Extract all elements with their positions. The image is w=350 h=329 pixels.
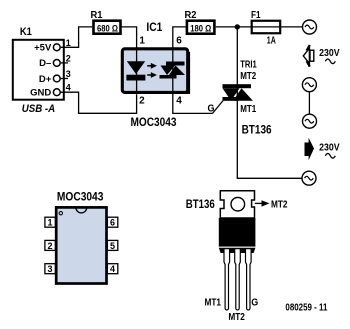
svg-text:6: 6 — [176, 36, 182, 47]
svg-text:D+: D+ — [39, 74, 52, 85]
svg-text:MT2: MT2 — [271, 199, 288, 210]
fuse F1 — [251, 10, 282, 47]
optocoupler IC1 box — [122, 20, 189, 93]
wire +5V to R1 — [61, 27, 92, 47]
svg-text:MOC3043: MOC3043 — [131, 117, 177, 129]
svg-text:F1: F1 — [251, 10, 261, 21]
TO-220 tab with notches — [220, 191, 254, 218]
svg-text:IC1: IC1 — [146, 20, 162, 34]
AC source terminal 1 — [303, 20, 317, 34]
wire D+ stub — [61, 78, 68, 80]
svg-text:GND: GND — [30, 87, 51, 98]
DIP pin 6 — [107, 217, 117, 227]
svg-text:K1: K1 — [20, 26, 32, 38]
svg-text:R2: R2 — [185, 10, 197, 21]
svg-text:080259 - 11: 080259 - 11 — [285, 301, 327, 313]
svg-text:G: G — [208, 104, 215, 115]
arrow to MT2 — [255, 199, 288, 210]
AC source terminal 4 — [302, 171, 316, 185]
sine symbol top — [325, 59, 335, 64]
svg-text:3: 3 — [66, 69, 71, 79]
svg-text:MOC3043: MOC3043 — [57, 190, 104, 204]
wire R1 to IC1 pin 1 — [121, 27, 136, 48]
triac TRI1 — [223, 84, 253, 101]
leg MT2 — [235, 249, 241, 310]
wire GND to IC1 pin 2 — [61, 92, 137, 113]
svg-text:2: 2 — [47, 241, 52, 251]
wire IC1 pin4 to gate — [173, 93, 213, 113]
svg-text:MT1: MT1 — [205, 298, 222, 309]
svg-text:5: 5 — [110, 241, 115, 251]
svg-text:230V: 230V — [319, 47, 340, 59]
AC source terminal 2 — [302, 78, 316, 92]
LED inside IC1 — [126, 61, 145, 80]
svg-text:1: 1 — [47, 218, 52, 228]
wire terminal2 to terminal3 — [308, 92, 310, 115]
leg G — [246, 249, 252, 310]
svg-text:R1: R1 — [91, 10, 103, 21]
wire F1 to AC terminal 1 — [281, 26, 302, 28]
DIP pin 4 — [107, 264, 117, 274]
svg-text:2: 2 — [66, 54, 71, 64]
wire pin6 through inner triac to pin4 — [172, 48, 174, 93]
DIP pin 1 — [45, 217, 55, 227]
wire IC1 pin6 to R2 — [173, 27, 186, 48]
svg-text:4: 4 — [66, 83, 71, 93]
wire junction down through triac to AC terminal 4 — [237, 27, 302, 178]
svg-text:4: 4 — [176, 95, 182, 106]
connector K1 — [13, 26, 71, 100]
TO-220 body — [219, 218, 256, 253]
wire pin1 through LED to pin2 — [136, 48, 138, 93]
AC source terminal 3 — [303, 114, 317, 128]
svg-text:MT2: MT2 — [240, 71, 256, 82]
svg-text:BT136: BT136 — [186, 197, 215, 211]
sine symbol bottom — [325, 154, 335, 159]
wire D- stub — [61, 62, 68, 64]
wire R2 to junction — [216, 26, 251, 28]
svg-text:+5V: +5V — [34, 43, 52, 54]
svg-text:USB -A: USB -A — [22, 103, 56, 115]
DIP pin 3 — [45, 264, 55, 274]
resistor R1 — [91, 10, 121, 34]
svg-text:1: 1 — [66, 38, 71, 48]
svg-text:3: 3 — [47, 264, 52, 274]
svg-text:BT136: BT136 — [242, 123, 272, 137]
svg-text:1A: 1A — [267, 36, 276, 47]
DIP pin 2 — [45, 240, 55, 250]
DIP package MOC3043 — [56, 190, 106, 284]
svg-text:MT2: MT2 — [228, 312, 245, 323]
svg-text:6: 6 — [110, 218, 115, 228]
DIP pin 5 — [107, 240, 117, 250]
svg-text:TRI1: TRI1 — [240, 60, 257, 71]
gate wire diagonal — [213, 101, 224, 114]
arrow 2 LED to triac — [147, 72, 157, 78]
svg-text:680 Ω: 680 Ω — [97, 23, 118, 33]
svg-text:4: 4 — [110, 264, 115, 274]
junction node — [235, 24, 240, 29]
svg-text:2: 2 — [139, 95, 145, 106]
arrow 1 LED to triac — [147, 63, 157, 69]
leg MT1 — [224, 249, 230, 310]
svg-text:MT1: MT1 — [240, 104, 256, 115]
mains arrow right (black) — [305, 138, 315, 160]
svg-text:230V: 230V — [319, 142, 340, 154]
svg-text:G: G — [251, 298, 258, 309]
svg-text:D–: D– — [39, 58, 51, 69]
svg-text:180 Ω: 180 Ω — [190, 23, 211, 33]
resistor R2 — [185, 10, 215, 34]
photo-triac inside IC1 — [160, 62, 186, 79]
tab hole — [231, 197, 245, 211]
svg-text:1: 1 — [139, 36, 145, 47]
mains arrow left (white) — [303, 45, 314, 67]
